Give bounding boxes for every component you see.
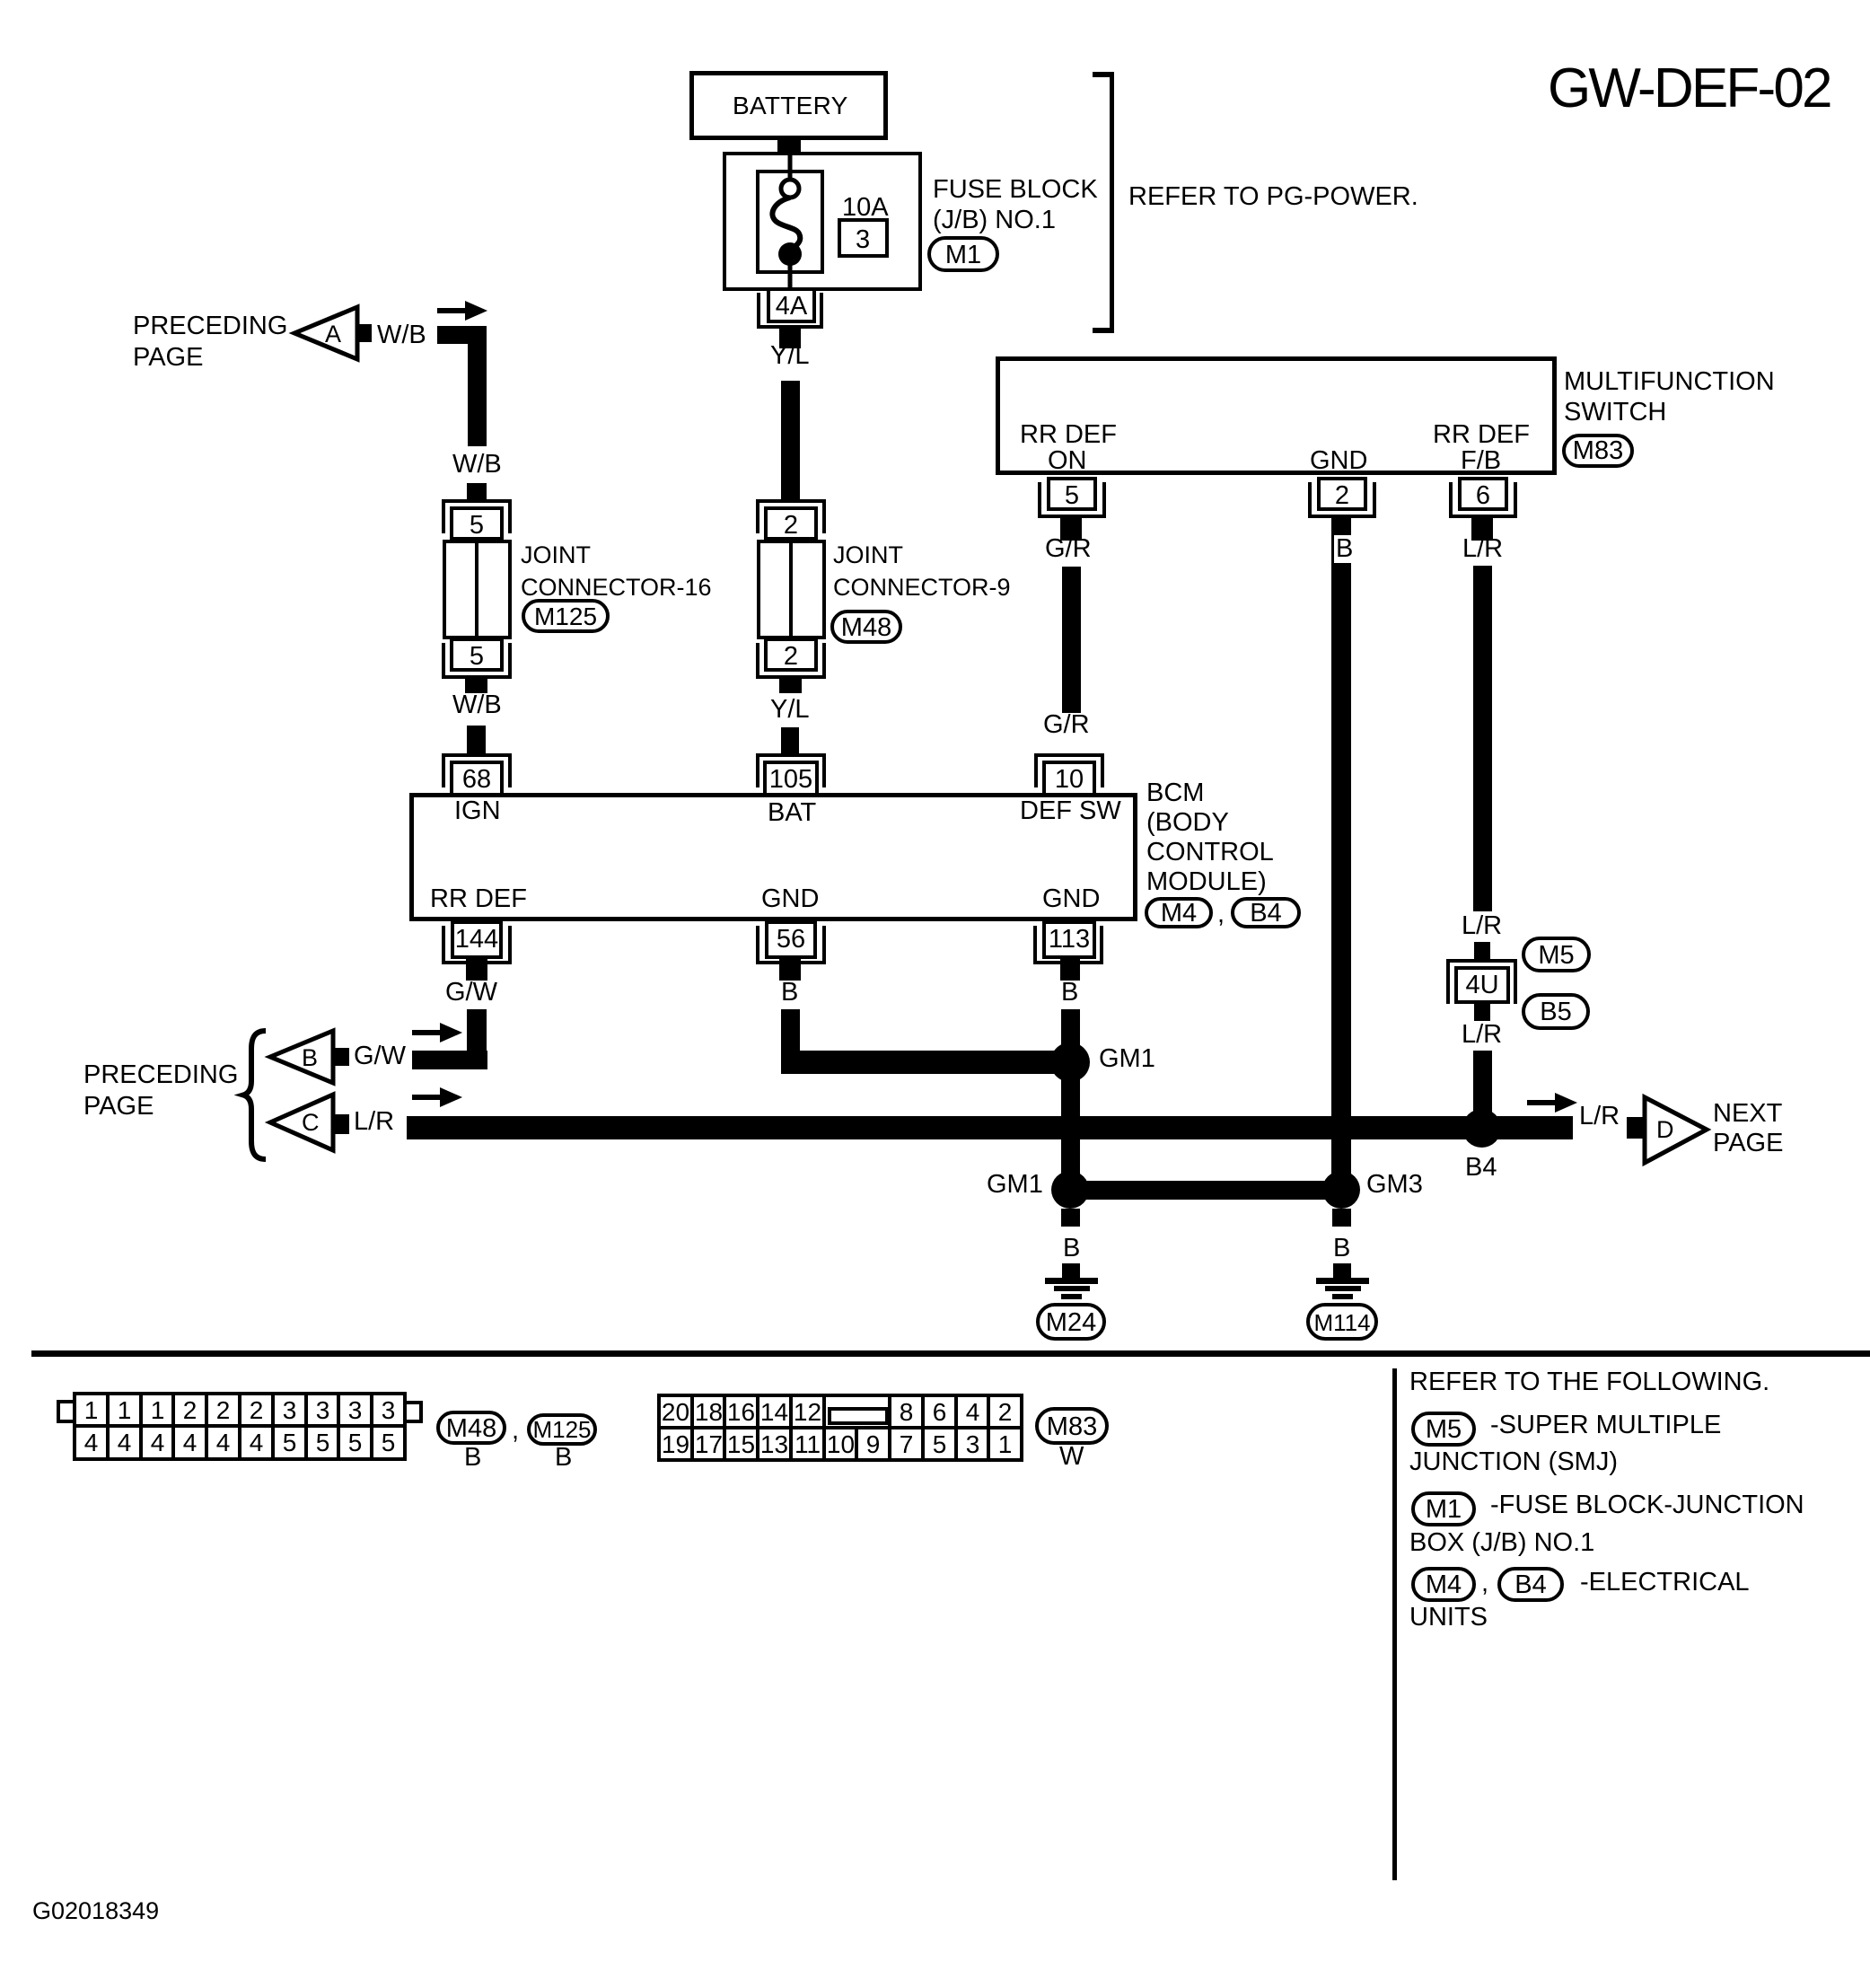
wire label L/R [1462,535,1503,563]
wire B horizontal to GM1 [781,1051,1072,1074]
wire label G/R [1045,535,1092,563]
wire label L/R [1462,1021,1502,1049]
connector M125 [527,1413,597,1446]
stub at triangle C [331,1114,349,1134]
color B [555,1444,572,1472]
wire label G/W [445,979,497,1007]
connector face M83 cells [657,1394,694,1429]
ground M114 [1316,1278,1369,1284]
wire stub [465,679,487,693]
joint connector-9 M48 top pin 2 [756,499,826,533]
wire L/R vertical [1473,566,1492,911]
connector B5 [1522,993,1590,1030]
color B [464,1444,481,1472]
left tab [57,1400,76,1423]
pin 113 of BCM [1042,920,1096,959]
color W [1059,1443,1084,1471]
stub at triangle D [1627,1117,1645,1139]
connector B4 [1231,897,1301,928]
wire label L/R [354,1108,394,1136]
wire label B [1334,535,1355,563]
pin 68 of BCM [442,753,512,787]
label GND [1042,885,1100,913]
wire stub [1333,1263,1351,1280]
label RR DEF F/B [1433,421,1530,449]
connector M48 [436,1411,506,1445]
connector face M83 outer [657,1394,1023,1461]
connector face M48 M125 cells [73,1392,110,1429]
wire stub [467,483,487,499]
wire G/R vertical [1062,567,1081,713]
junction GM1 [1050,1042,1090,1082]
label preceding page A [133,311,287,374]
wire label L/R [1579,1103,1620,1130]
pin 2 of multifunction switch [1317,477,1367,511]
label multifunction switch [1564,366,1775,427]
joint connector-9 bottom pin 2 [764,638,818,672]
connector M125 [522,599,610,633]
title GW-DEF-02 [1548,59,1830,119]
pin 56 of BCM [765,920,817,959]
wire label W/B [377,321,426,349]
connector M5 legend [1411,1412,1476,1447]
connector face M48 M125 outer [73,1392,407,1461]
label RR DEF ON [1020,421,1117,449]
wire label L/R [1462,912,1502,940]
label joint connector-16 [521,539,712,603]
separator line [31,1350,1870,1357]
stub at triangle A [356,324,372,342]
wire label B [1333,1235,1350,1262]
wire stub [1474,942,1490,962]
wire label B [781,979,798,1007]
legend divider [1392,1368,1397,1880]
battery B+ [689,71,888,140]
pin 105 of BCM [756,753,826,787]
wire label B [1063,1235,1080,1262]
wire label W/B [452,451,502,479]
wire stub [467,726,486,753]
pin 4A of fuse block [757,293,823,329]
wire L/R vertical to B4 [1473,1051,1492,1128]
wire label G/R [1043,711,1090,739]
SMJ connector 4U [1446,959,1517,1004]
legend refer to the following [1409,1368,1769,1396]
wire B vertical from MF pin 2 to GM3 [1331,518,1351,1190]
junction GM1 lower [1051,1171,1089,1209]
wire stub [779,959,801,981]
wire B vertical through GM1 [1061,1009,1080,1190]
junction B4 [1462,1109,1501,1148]
label IGN [454,797,501,825]
joint connector-16 body [443,540,512,639]
wire stub [1062,1263,1080,1280]
wire B vertical from pin 56 [781,1009,800,1074]
joint connector-16 bottom pin 5 [450,638,504,672]
connector M83 [1562,434,1634,468]
label preceding page B C [83,1060,238,1122]
wire stub [466,959,487,981]
label DEF SW [1020,797,1121,825]
wire G/W horizontal [412,1051,487,1069]
wire label W/B [452,691,502,719]
connector M83 [1035,1407,1109,1445]
fuse block J/B no.1 box M1 [723,152,922,291]
wire stub [1060,959,1080,981]
wire GM1 to GM3 [1070,1181,1342,1200]
note refer to PG-POWER [1128,183,1418,211]
wire G/W vertical [467,1009,487,1069]
pin 144 of BCM [451,920,503,959]
key slot [828,1407,889,1425]
wire Y/L vertical [781,381,800,500]
right tab [403,1401,423,1423]
fuse number 3 box [838,218,889,258]
label BCM [1146,778,1274,897]
connector M4 [1145,897,1213,928]
connector M5 [1522,937,1591,972]
wire battery to fuse block [777,136,801,156]
wire stub below MF pin 5 [1060,517,1082,541]
label BAT [768,799,816,827]
label RR DEF [430,885,527,913]
wire W/B vertical [468,326,487,446]
connector M1 [927,236,999,272]
pin 6 of multifunction switch [1458,477,1508,511]
wire label Y/L [770,342,810,370]
joint connector-16 M125 top pin 5 [442,499,512,533]
pin 5 of multifunction switch [1047,477,1097,511]
joint connector-9 body [757,540,826,639]
figure number [32,1898,159,1924]
label next page [1713,1099,1783,1158]
wire stub [781,727,799,753]
wire stub below 4U [1474,1003,1490,1021]
wire stub below 4A [779,329,801,348]
BCM body control module box [409,793,1137,921]
wire stub below GM3 [1332,1209,1351,1227]
wire label G/W [354,1042,406,1070]
connector M4 legend [1411,1567,1476,1602]
connector B4 legend [1497,1567,1564,1602]
connector M48 [830,610,902,644]
pin 10 of BCM [1034,753,1104,787]
wire stub below GM1 [1061,1209,1080,1227]
label GND [761,885,819,913]
bracket for refer note [1110,72,1114,333]
wire stub below MF pin 6 [1471,517,1493,541]
fuse F3 housing [756,170,824,274]
connector M1 legend [1411,1491,1476,1526]
ground M24 [1045,1278,1098,1284]
label joint connector-9 [833,539,1011,603]
wire stub [779,679,802,693]
wire label B [1061,979,1078,1007]
multifunction switch box M83 [996,356,1557,475]
wire W/B horizontal [437,326,487,344]
label GND [1310,447,1367,475]
wire L/R long horizontal [407,1116,1573,1139]
fuse rating 10A [842,194,889,222]
junction GM3 [1322,1171,1360,1209]
wire label Y/L [770,696,810,724]
label fuse block [933,174,1098,235]
stub at triangle B [331,1048,349,1066]
